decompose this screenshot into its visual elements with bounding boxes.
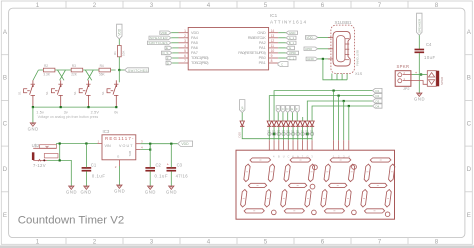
wire junction to S4: [118, 70, 120, 82]
svg-text:C: C: [282, 107, 284, 111]
svg-text:PB0: PB0: [259, 56, 266, 60]
wire USB shield pins drop: [332, 74, 347, 80]
svg-text:3: 3: [150, 238, 154, 245]
net flag SWITCHES: [125, 68, 149, 73]
apostrophe dot: [352, 165, 357, 170]
junction digit4: [348, 105, 350, 107]
junction jack rail: [59, 142, 61, 144]
junction dots bottom rail: [32, 106, 34, 108]
wire diagonal to S1: [33, 70, 38, 80]
net flag UPDI (USB): [304, 47, 318, 51]
voltage regulator IC3: [102, 129, 136, 160]
net flag DP (above diode D10): [240, 100, 245, 113]
svg-text:D3: D3: [376, 99, 380, 103]
junction C2 top: [149, 143, 151, 145]
svg-text:C: C: [3, 120, 8, 127]
svg-text:TOSC2(PB2): TOSC2(PB2): [191, 61, 209, 65]
switch S1: [17, 80, 35, 107]
diode D10: [237, 121, 244, 138]
IC1 left pins: [179, 33, 189, 63]
svg-text:3.3K: 3.3K: [43, 73, 50, 77]
svg-text:2: 2: [93, 238, 97, 245]
switch S2: [45, 80, 63, 107]
wire jack sleeve to GND: [47, 160, 71, 186]
svg-text:GND: GND: [414, 97, 425, 102]
net flag C (IC1 pin 8): [278, 62, 288, 67]
svg-text:C_1: C_1: [289, 56, 295, 60]
resistor R2: [43, 64, 55, 77]
svg-text:2: 2: [93, 2, 97, 9]
svg-text:B: B: [3, 75, 7, 82]
diode D1: [267, 121, 271, 126]
svg-text:Voltage on analog pin from but: Voltage on analog pin from button press: [38, 115, 99, 119]
svg-text:3: 3: [150, 2, 154, 9]
svg-text:C: C: [288, 154, 290, 158]
USB contacts: [345, 39, 349, 60]
connector U$2 barrel jack: [32, 143, 58, 168]
svg-text:E: E: [467, 212, 471, 219]
svg-text:SPEAKER: SPEAKER: [418, 18, 422, 33]
svg-text:C1: C1: [91, 162, 97, 167]
svg-text:D: D: [286, 107, 288, 111]
net flag D (IC1 pin 7): [166, 61, 172, 65]
svg-text:IC1: IC1: [270, 13, 278, 18]
display pin names: [273, 154, 350, 158]
svg-text:Countdown Timer V2: Countdown Timer V2: [18, 215, 124, 227]
svg-text:B: B: [467, 75, 471, 82]
diode D9b: [310, 121, 314, 126]
wire detect drop: [59, 144, 61, 161]
svg-text:GND: GND: [66, 190, 77, 195]
wire TAB joins VOUT: [141, 144, 151, 150]
wire GND down to shield: [323, 59, 347, 80]
wire IC3 GND pin: [118, 166, 120, 185]
svg-text:PA6: PA6: [191, 46, 198, 50]
svg-text:VIN: VIN: [105, 144, 111, 148]
svg-text:SPEAKER: SPEAKER: [150, 36, 168, 40]
ground (IC3): [114, 185, 125, 194]
svg-text:0v: 0v: [114, 110, 118, 114]
wire VIN rail: [56, 143, 97, 145]
svg-text:D_S: D_S: [163, 51, 169, 55]
svg-text:PB1: PB1: [259, 61, 266, 65]
svg-text:6: 6: [321, 2, 325, 9]
svg-text:3v: 3v: [64, 110, 68, 114]
USB tongue: [337, 36, 345, 62]
svg-text:A_1: A_1: [289, 36, 295, 40]
junction digit3: [343, 100, 345, 102]
IC1 left pin names: [191, 31, 209, 65]
wire VOUT rail: [141, 143, 178, 145]
svg-text:TOSC1(PB3): TOSC1(PB3): [191, 56, 209, 60]
decimal point 3: [352, 210, 357, 215]
supply flag VDD (regulator output): [178, 141, 193, 146]
svg-text:GND: GND: [81, 190, 92, 195]
svg-text:SWITCHES: SWITCHES: [128, 68, 148, 72]
svg-text:E: E: [291, 107, 293, 111]
svg-text:10K: 10K: [121, 51, 125, 56]
svg-text:5: 5: [264, 238, 268, 245]
svg-text:SWITCHES: SWITCHES: [149, 41, 168, 45]
net flag E (IC1 pin 4): [165, 46, 172, 50]
svg-text:GND: GND: [289, 31, 297, 35]
microcontroller IC1: [188, 13, 306, 70]
wire JP2 pin2 to buzzer: [412, 81, 427, 85]
net flag DIG1: [373, 88, 383, 93]
svg-text:7-12V: 7-12V: [33, 163, 46, 168]
svg-text:0.1uF: 0.1uF: [92, 174, 105, 179]
wire junction to SWITCHES flag: [119, 69, 124, 71]
capacitor C2: [145, 162, 168, 178]
speaker SP1: [415, 70, 444, 86]
wire C2 leads: [149, 144, 151, 168]
net flag UPDI (IC1 pin 10): [286, 51, 299, 55]
net flag DP (IC1 pin 5): [162, 51, 173, 55]
svg-text:PA2: PA2: [259, 41, 266, 45]
wire D10 to display bus: [242, 127, 312, 139]
bottom window strip: [0, 245, 474, 248]
svg-text:PA4: PA4: [191, 36, 198, 40]
net flag C2 (IC1 pin 9): [286, 56, 296, 60]
supply flag VDD (top of R1): [117, 24, 122, 39]
svg-text:PA1: PA1: [259, 46, 266, 50]
svg-text:UPDI: UPDI: [289, 51, 296, 55]
net flag DIG2: [373, 93, 383, 98]
wire C4 to speaker node: [418, 53, 420, 93]
net flag GND (IC1 pin 14): [286, 31, 298, 35]
svg-text:D10: D10: [237, 132, 241, 138]
svg-text:D2: D2: [376, 94, 380, 98]
net flag SPEAKER (IC1 pin 2): [149, 36, 171, 40]
net flag SPEAKER (C4 top): [417, 13, 422, 35]
junction C3 top: [170, 143, 172, 145]
svg-text:IC3: IC3: [103, 129, 110, 134]
wire USB GND: [318, 58, 331, 60]
net flag seg C: [281, 106, 285, 113]
svg-text:5: 5: [264, 2, 268, 9]
svg-text:22K: 22K: [71, 73, 78, 77]
svg-text:47/16: 47/16: [176, 174, 189, 179]
wire digit4 drop: [348, 106, 350, 140]
capacitor C4: [415, 42, 436, 60]
colon lower dot: [310, 184, 315, 189]
svg-text:S1: S1: [17, 91, 21, 95]
svg-text:4: 4: [207, 238, 211, 245]
IC1 right pin numbers: [271, 29, 275, 63]
wires diode row to display: [269, 127, 312, 140]
diode D9: [305, 121, 309, 126]
junction USB GND: [322, 58, 324, 60]
segment wire w3: [307, 101, 372, 121]
svg-text:VDD: VDD: [117, 28, 121, 35]
connector X1USB1 dashed outline: [331, 20, 355, 73]
junction speaker node: [420, 73, 422, 75]
wire X crossing R3/R4 to S3: [85, 70, 92, 80]
svg-text:VDD: VDD: [161, 31, 168, 35]
decimal point 4: [385, 212, 390, 217]
ground (C2): [145, 186, 156, 195]
wires seg flags to diodes: [278, 113, 303, 121]
svg-text:C2: C2: [156, 162, 162, 167]
svg-text:REG1117-: REG1117-: [105, 136, 134, 141]
svg-text:GND: GND: [145, 190, 156, 195]
pad link ticks: [271, 133, 311, 135]
IC1 right pin names: [238, 31, 266, 65]
net flag seg E: [290, 106, 294, 113]
7-segment digit 3: [320, 158, 356, 213]
svg-text:PA5: PA5: [191, 41, 198, 45]
diode D4: [281, 121, 285, 126]
net flag GND (USB): [306, 57, 318, 61]
segment wire w4: [312, 106, 372, 121]
svg-text:GND: GND: [257, 31, 266, 35]
node junction R1/R4/SWITCHES: [118, 69, 120, 71]
svg-text:X1USB1: X1USB1: [335, 20, 352, 25]
junction digit2: [338, 95, 340, 97]
switch S3: [73, 80, 91, 107]
wire C1 leads: [85, 144, 87, 168]
wire JP2 pin1 to buzzer: [412, 74, 427, 76]
svg-text:GND: GND: [166, 190, 177, 195]
svg-text:D: D: [3, 166, 8, 173]
svg-text:U$2: U$2: [32, 143, 40, 148]
net flag VDD (IC1 pin 1): [160, 31, 171, 35]
resistor pad circles row: [268, 132, 314, 135]
junction pad G: [306, 133, 308, 135]
svg-text:R3: R3: [72, 64, 76, 68]
svg-text:6: 6: [321, 238, 325, 245]
resistor R4: [99, 64, 111, 77]
svg-text:F: F: [167, 56, 169, 60]
svg-text:D: D: [467, 166, 472, 173]
ground (jack): [66, 186, 77, 195]
svg-text:R2: R2: [44, 64, 48, 68]
svg-text:U: U: [283, 154, 285, 158]
resistor R3: [71, 64, 83, 77]
capacitor C3 polarized: [167, 162, 189, 178]
svg-text:DP: DP: [240, 106, 244, 110]
wire C3 leads: [170, 144, 172, 168]
resistor ladder rail wire: [38, 69, 115, 71]
IC1 right pins: [269, 33, 279, 63]
svg-text:D4: D4: [376, 104, 380, 108]
7-segment digit 2: [280, 158, 316, 213]
svg-text:F: F: [296, 107, 298, 111]
net flag DIG3: [373, 99, 383, 104]
wires IC1 left pins to flags: [171, 33, 179, 63]
svg-text:C4: C4: [426, 42, 432, 47]
net flag seg D: [286, 106, 290, 113]
svg-text:4: 4: [207, 2, 211, 9]
wire digit3 drop: [343, 101, 345, 140]
svg-text:C: C: [467, 120, 472, 127]
svg-text:10uF: 10uF: [424, 55, 435, 60]
svg-text:1: 1: [36, 238, 40, 245]
wires IC1 right pins to flags: [278, 33, 286, 58]
svg-text:GND: GND: [28, 127, 38, 132]
diode D6: [291, 121, 295, 126]
svg-text:7: 7: [378, 238, 382, 245]
svg-text:B_1: B_1: [289, 41, 295, 45]
svg-text:7: 7: [378, 2, 382, 9]
capacitor C1: [82, 162, 106, 178]
svg-text:VOUT: VOUT: [119, 144, 133, 148]
wire X crossing R2/R3 to S2: [58, 70, 65, 80]
wire rail to GND: [32, 107, 34, 123]
svg-text:R4: R4: [100, 64, 104, 68]
decimal point 2: [312, 210, 317, 215]
JP2 pins: [403, 75, 412, 81]
wire R1 to junction: [118, 57, 120, 70]
ground (C3): [166, 186, 177, 195]
svg-text:GND: GND: [114, 189, 125, 194]
svg-text:PA3/EXTCLK: PA3/EXTCLK: [248, 36, 266, 40]
wire USB UPDI: [318, 48, 331, 50]
diode D3: [277, 121, 281, 126]
svg-text:PINHD_USB: PINHD_USB: [356, 50, 360, 66]
svg-text:UPDI: UPDI: [305, 47, 312, 51]
svg-text:8: 8: [435, 2, 439, 9]
7-segment digit 4: [360, 158, 396, 213]
svg-text:R1: R1: [113, 51, 117, 55]
diode D7: [296, 121, 300, 126]
wire VDD to R1: [118, 39, 120, 46]
net flag seg F: [295, 106, 299, 113]
net flag G (IC1 pin 11): [286, 46, 295, 50]
segment wire A (w1): [274, 91, 372, 121]
net flag seg B: [276, 106, 280, 113]
svg-text:ATTINY1614: ATTINY1614: [270, 19, 306, 24]
junction jack sleeve: [59, 159, 61, 161]
svg-text:1.5v: 1.5v: [36, 110, 44, 114]
wire USB VDD: [318, 36, 331, 38]
IC1 left pin numbers: [184, 29, 186, 63]
USB shell shape: [333, 31, 350, 66]
wire flag to D10: [241, 113, 243, 121]
IC3 pins: [98, 144, 141, 167]
svg-text:GND: GND: [307, 57, 315, 61]
svg-text:2.5V: 2.5V: [91, 110, 100, 114]
wire digit2 drop: [338, 96, 340, 141]
diode D5: [286, 121, 290, 126]
segment wire B (w2): [269, 96, 372, 121]
decimal point 1: [272, 210, 277, 215]
svg-text:PA0(RESET/UPDI): PA0(RESET/UPDI): [238, 51, 266, 55]
svg-text:E: E: [3, 212, 7, 219]
wire bottom rail: [33, 106, 116, 108]
diode D2: [272, 121, 276, 126]
svg-text:B: B: [277, 107, 279, 111]
junction digit1: [333, 90, 335, 92]
svg-text:C3: C3: [177, 162, 183, 167]
svg-text:8: 8: [435, 238, 439, 245]
svg-text:VDD: VDD: [306, 36, 313, 40]
colon upper dot: [313, 165, 318, 170]
ground (buttons): [28, 123, 38, 132]
svg-text:VDD: VDD: [181, 142, 189, 146]
svg-text:PA7: PA7: [191, 51, 198, 55]
ground (speaker): [414, 93, 425, 102]
resistor R1: [113, 46, 125, 57]
junction pad A: [273, 133, 275, 135]
net flag VDD (USB): [305, 36, 317, 40]
wire digit1 drop: [333, 91, 335, 141]
wire SPEAKER flag to C4: [418, 35, 420, 49]
7-segment digit 1: [240, 158, 276, 213]
diode D8: [300, 121, 304, 126]
svg-text:SPKR: SPKR: [440, 76, 444, 85]
net flag A (IC1 pin 13): [286, 36, 296, 40]
display pin stubs: [269, 140, 349, 150]
net flag F (IC1 pin 6): [166, 56, 172, 60]
net flag DIG4: [373, 104, 383, 109]
ground (C1): [81, 186, 92, 195]
junction C1 top: [85, 142, 87, 144]
svg-text:VDD: VDD: [191, 31, 199, 35]
svg-text:0.1uF: 0.1uF: [155, 174, 168, 179]
svg-text:E: E: [166, 46, 168, 50]
svg-text:1: 1: [36, 2, 40, 9]
switch S4: [101, 80, 119, 107]
net flag B (IC1 pin 12): [286, 41, 296, 45]
connector JP2 (speaker header): [395, 64, 411, 91]
svg-text:SPKR: SPKR: [397, 64, 410, 69]
svg-text:56K: 56K: [99, 73, 106, 77]
display DISP1 body: [236, 150, 395, 219]
USB left pins: [328, 37, 333, 59]
svg-text:JP2: JP2: [403, 87, 410, 91]
svg-text:D1: D1: [376, 89, 380, 93]
resistor pads row labels: [268, 130, 315, 133]
svg-text:B: B: [278, 154, 280, 158]
svg-text:TAB: TAB: [128, 151, 132, 157]
net flag SWITCHES (IC1 pin 3): [148, 41, 172, 45]
svg-text:X1S: X1S: [355, 72, 363, 76]
